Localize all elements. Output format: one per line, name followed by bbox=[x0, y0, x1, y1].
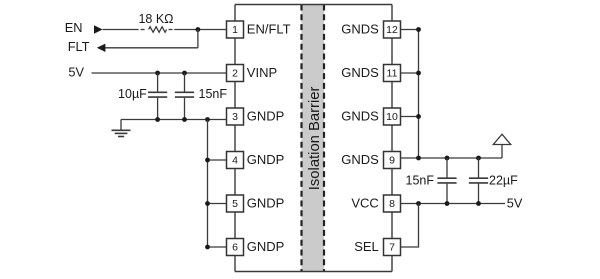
junction C4 top bbox=[476, 156, 481, 161]
svg-text:VINP: VINP bbox=[247, 65, 277, 80]
svg-text:4: 4 bbox=[232, 154, 238, 166]
wire VCC row to 5V bbox=[401, 203, 506, 205]
secondary ground GND2 bbox=[493, 134, 510, 158]
svg-text:GNDP: GNDP bbox=[247, 109, 285, 124]
svg-text:7: 7 bbox=[389, 241, 395, 253]
pin 10 bbox=[384, 108, 401, 125]
junction GNDS pin 11 bbox=[416, 71, 421, 76]
pin 8 bbox=[384, 195, 401, 212]
pin 7 bbox=[384, 239, 401, 256]
IC U1 outline bbox=[235, 5, 392, 272]
svg-text:SEL: SEL bbox=[354, 239, 379, 254]
capacitor C3 15nF bbox=[437, 158, 456, 204]
svg-text:8: 8 bbox=[389, 198, 395, 210]
svg-text:6: 6 bbox=[232, 241, 238, 253]
svg-text:VCC: VCC bbox=[351, 196, 378, 211]
capacitor C2 15nF bbox=[175, 73, 194, 120]
wire FLT horizontal bbox=[105, 47, 198, 49]
junction C2 bottom bbox=[182, 117, 187, 122]
svg-text:EN/FLT: EN/FLT bbox=[247, 22, 291, 37]
svg-text:12: 12 bbox=[386, 24, 398, 36]
svg-text:GNDS: GNDS bbox=[341, 65, 379, 80]
svg-text:10µF: 10µF bbox=[118, 87, 147, 101]
wire pin 11 to GNDS bus bbox=[401, 72, 419, 74]
svg-text:Isolation Barrier: Isolation Barrier bbox=[307, 87, 323, 191]
junction node EN/FLT bbox=[196, 27, 201, 32]
junction C2 top bbox=[182, 71, 187, 76]
ground symbol GND1 bbox=[112, 120, 131, 137]
wire stub to pin 5 bbox=[208, 203, 227, 205]
svg-text:GNDS: GNDS bbox=[341, 22, 379, 37]
FLT output arrow bbox=[97, 44, 106, 52]
wire pin 12 to GNDS bus bbox=[401, 29, 419, 31]
svg-text:2: 2 bbox=[232, 67, 238, 79]
junction pin 5 stub bbox=[205, 201, 210, 206]
wire 5V to VINP pin 2 bbox=[92, 72, 227, 74]
pin 11 bbox=[384, 65, 401, 82]
svg-text:GNDP: GNDP bbox=[247, 196, 285, 211]
svg-text:22µF: 22µF bbox=[489, 174, 518, 188]
svg-text:FLT: FLT bbox=[68, 39, 90, 54]
wire stub to pin 4 bbox=[208, 159, 227, 161]
pin 4 bbox=[227, 152, 244, 169]
wire stub to pin 6 bbox=[208, 246, 227, 248]
junction GNDS pin 12 bbox=[416, 27, 421, 32]
junction C3 top bbox=[445, 156, 450, 161]
capacitor C4 22µF bbox=[469, 158, 488, 204]
svg-text:GNDP: GNDP bbox=[247, 239, 285, 254]
junction SEL tie bbox=[416, 201, 421, 206]
svg-text:10: 10 bbox=[386, 111, 398, 123]
svg-text:GNDS: GNDS bbox=[341, 152, 379, 167]
wire ground row to pin 3 bbox=[121, 119, 227, 121]
wire GNDP bus vertical bbox=[207, 120, 209, 248]
svg-text:11: 11 bbox=[387, 67, 398, 79]
svg-text:3: 3 bbox=[232, 111, 238, 123]
pin 2 bbox=[227, 65, 244, 82]
junction GNDS pin 10 bbox=[416, 114, 421, 119]
svg-text:9: 9 bbox=[389, 154, 395, 166]
EN input arrow bbox=[94, 25, 103, 33]
capacitor C1 10µF bbox=[148, 73, 167, 120]
resistor 18 KΩ bbox=[141, 27, 173, 33]
wire resistor to pin 1 bbox=[174, 29, 226, 31]
svg-text:1: 1 bbox=[232, 24, 238, 36]
wire pin 10 to GNDS bus bbox=[401, 116, 419, 118]
junction C4 bottom bbox=[476, 201, 481, 206]
junction C3 bottom bbox=[445, 201, 450, 206]
svg-text:GNDS: GNDS bbox=[341, 109, 379, 124]
svg-text:15nF: 15nF bbox=[406, 174, 435, 188]
junction C1 bottom bbox=[155, 117, 160, 122]
pin 12 bbox=[384, 21, 401, 38]
wire SEL stub bbox=[401, 204, 419, 248]
junction GNDS pin 9 bbox=[416, 156, 421, 161]
wire GNDS bus vertical bbox=[418, 30, 420, 159]
pin 6 bbox=[227, 239, 244, 256]
junction C1 top bbox=[155, 71, 160, 76]
svg-text:5V: 5V bbox=[507, 196, 523, 211]
svg-text:5: 5 bbox=[232, 198, 238, 210]
wire junction down to FLT bbox=[197, 30, 199, 48]
svg-text:15nF: 15nF bbox=[199, 87, 228, 101]
svg-text:GNDP: GNDP bbox=[247, 152, 285, 167]
pin 5 bbox=[227, 195, 244, 212]
pin 9 bbox=[384, 152, 401, 169]
svg-text:5V: 5V bbox=[68, 65, 84, 80]
svg-text:18 KΩ: 18 KΩ bbox=[138, 12, 173, 26]
junction pin 4 stub bbox=[205, 158, 210, 163]
wire EN arrow to resistor bbox=[103, 29, 139, 31]
pin 3 bbox=[227, 108, 244, 125]
wire pin 9 row bbox=[401, 157, 503, 159]
junction GNDP branch bbox=[205, 117, 210, 122]
isolation barrier bbox=[302, 5, 325, 272]
pin 1 bbox=[227, 21, 244, 38]
svg-text:EN: EN bbox=[65, 20, 83, 35]
junction pin 6 stub bbox=[205, 245, 210, 250]
